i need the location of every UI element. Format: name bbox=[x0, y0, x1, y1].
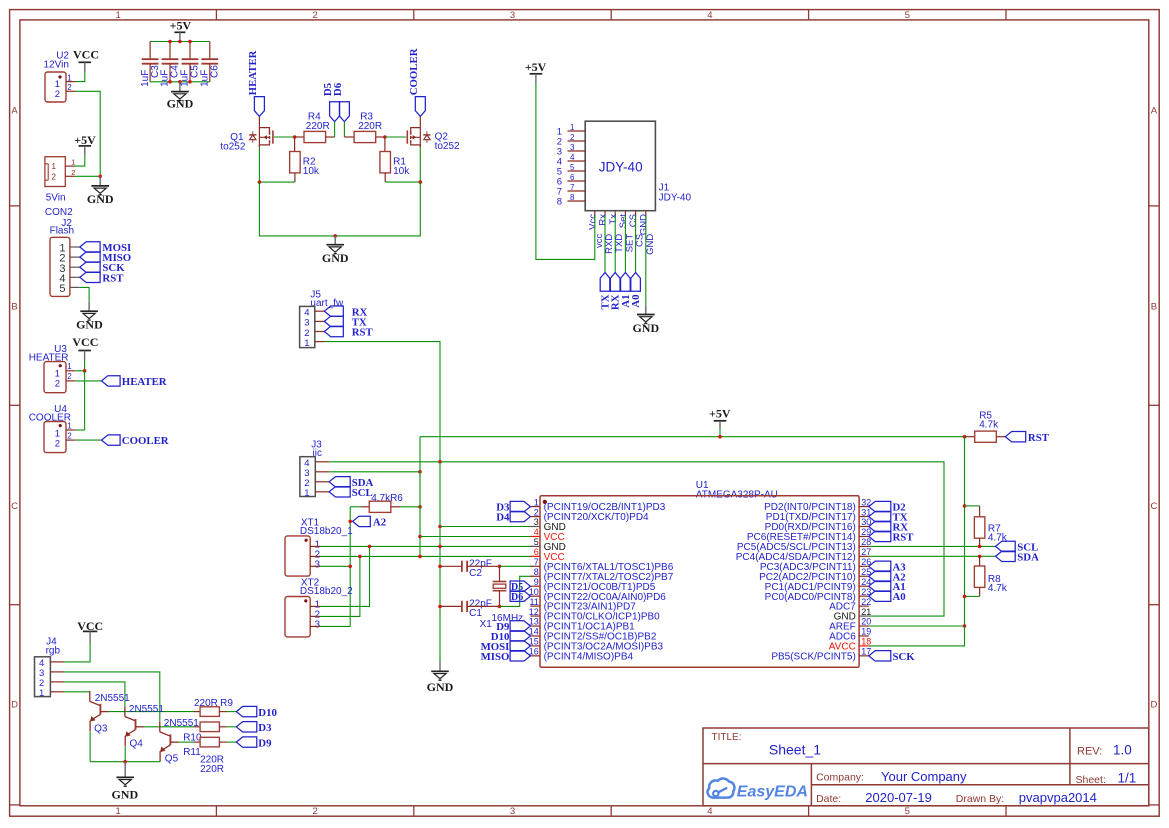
junction Q2 source bbox=[419, 180, 423, 184]
svg-text:D3: D3 bbox=[258, 722, 272, 734]
svg-text:12: 12 bbox=[529, 607, 539, 617]
ground GND below V2 bbox=[427, 662, 454, 694]
svg-text:VCC: VCC bbox=[73, 48, 99, 62]
svg-text:+5V: +5V bbox=[170, 18, 192, 32]
svg-text:18: 18 bbox=[861, 637, 871, 647]
connector 5Vin bbox=[45, 157, 76, 204]
wire GND rail V2 lower bbox=[439, 462, 441, 662]
transistor Q5 bbox=[160, 718, 199, 764]
svg-text:C6: C6 bbox=[210, 65, 221, 78]
svg-text:C: C bbox=[1150, 501, 1157, 512]
net flag D10 at U1.14 bbox=[491, 631, 531, 643]
junction mosfet ground rail bbox=[333, 234, 337, 238]
wire Q3 collector to R9 bbox=[109, 711, 194, 713]
svg-text:D9: D9 bbox=[258, 737, 272, 749]
net flag A3 at U1.26 bbox=[869, 561, 906, 573]
junction R7 top on V3 bbox=[963, 504, 967, 508]
svg-text:4.7k: 4.7k bbox=[988, 533, 1008, 544]
svg-text:VCC: VCC bbox=[72, 335, 98, 349]
wire mosfet ground rail bbox=[259, 182, 420, 236]
wire XT1.3 to A2 net bbox=[320, 565, 350, 567]
svg-text:4: 4 bbox=[534, 527, 539, 537]
svg-text:X1: X1 bbox=[480, 619, 493, 630]
pin J3.4 bbox=[315, 461, 329, 463]
svg-text:D6: D6 bbox=[332, 82, 344, 96]
junction R7 bottom SCL bbox=[978, 545, 982, 549]
svg-text:GND: GND bbox=[427, 680, 454, 694]
svg-text:B: B bbox=[1151, 301, 1157, 312]
svg-text:2: 2 bbox=[312, 10, 317, 21]
pin J2.4 bbox=[70, 276, 80, 278]
ground GND below mosfets bbox=[322, 236, 349, 265]
pin J1.3 (nc) bbox=[557, 143, 585, 158]
resistor R7 bbox=[965, 506, 1008, 547]
junction Q1 gate bbox=[293, 135, 297, 139]
pin U1.25 PC2(ADC2/PCINT10) bbox=[759, 567, 871, 583]
pin U1.24 PC1(ADC1/PCINT9) bbox=[765, 577, 872, 593]
pin U1.3 GND bbox=[530, 517, 565, 533]
svg-text:2N5551: 2N5551 bbox=[164, 718, 199, 729]
svg-text:4: 4 bbox=[707, 806, 712, 817]
pin U1.27 PC4(ADC4/SDA/PCINT12) bbox=[736, 547, 871, 563]
svg-text:RST: RST bbox=[893, 531, 915, 543]
transistor Q2 bbox=[407, 116, 460, 151]
wire Q2 source down bbox=[419, 147, 421, 154]
wire pin4 row branch bbox=[420, 536, 533, 538]
svg-text:Sheet:: Sheet: bbox=[1076, 774, 1106, 786]
connector J5 uart_fw bbox=[300, 290, 344, 349]
pin J3.3 bbox=[315, 471, 329, 473]
wire C2 to U1 pin7 bbox=[500, 565, 533, 567]
svg-text:1: 1 bbox=[67, 422, 72, 431]
wire JDY-40 CS to A0 flag bbox=[635, 216, 637, 273]
svg-text:DS18b20_2: DS18b20_2 bbox=[300, 586, 353, 597]
junction V2 pin3 row bbox=[438, 525, 442, 529]
pin J5.2 bbox=[315, 331, 325, 333]
net flag COOLER at Q2 bbox=[408, 48, 425, 116]
svg-text:rgb: rgb bbox=[46, 646, 61, 657]
wire U2.1 to VCC bbox=[75, 72, 84, 82]
net flag RST at R5 bbox=[1005, 432, 1049, 444]
svg-text:B: B bbox=[11, 301, 17, 312]
pin J1.2 (nc) bbox=[557, 133, 585, 148]
svg-text:220R: 220R bbox=[358, 121, 382, 132]
net flag RST at J5 bbox=[324, 326, 373, 338]
net flag D5 at U1.9 bbox=[510, 581, 530, 593]
svg-text:2: 2 bbox=[534, 507, 539, 517]
junction C1 left bbox=[438, 605, 442, 609]
resistor R4 bbox=[295, 112, 335, 143]
svg-text:2: 2 bbox=[55, 438, 60, 449]
svg-text:RST: RST bbox=[1028, 432, 1050, 444]
svg-text:Flash: Flash bbox=[50, 226, 74, 237]
pin J1 CS (bottom) bbox=[628, 211, 645, 247]
pin XT1.1 bbox=[310, 545, 320, 547]
wire JDY-40 TXD to RX flag bbox=[614, 216, 616, 273]
junction R5 left bbox=[963, 435, 967, 439]
pin J1.7 (nc) bbox=[557, 183, 585, 198]
svg-text:20: 20 bbox=[861, 617, 871, 627]
svg-text:12Vin: 12Vin bbox=[44, 60, 69, 71]
junction R8 top SDA bbox=[978, 555, 982, 559]
pin J1 Rx (bottom) bbox=[598, 211, 615, 254]
svg-text:MISO: MISO bbox=[481, 651, 510, 663]
pin U1.18 AVCC bbox=[829, 637, 871, 653]
crystal X1 16MHz bbox=[480, 566, 524, 630]
svg-text:SCL: SCL bbox=[352, 487, 373, 499]
ground GND below JDY-40 bbox=[632, 306, 659, 335]
svg-text:2: 2 bbox=[55, 379, 60, 390]
resistor R2 bbox=[290, 137, 320, 182]
power flag +5V at 5Vin bbox=[74, 133, 96, 156]
svg-text:COOLER: COOLER bbox=[122, 435, 169, 447]
net flag D4 at U1.2 bbox=[496, 511, 530, 523]
wire JDY-40 GND down bbox=[645, 216, 647, 306]
wire R2 to Q1 source bbox=[259, 181, 295, 183]
net flag D3 at U1.1 bbox=[496, 501, 530, 513]
wire U1 pin20 AREF to V3 bbox=[869, 625, 965, 627]
connector U3 HEATER bbox=[29, 344, 72, 393]
net flag D9 at R11 bbox=[236, 737, 272, 749]
pin J1 Vcc (bottom) bbox=[587, 211, 604, 248]
pin U1.32 PD2(INT0/PCINT18) bbox=[764, 497, 871, 513]
svg-text:1.0: 1.0 bbox=[1113, 743, 1132, 758]
pin J5.1 bbox=[315, 341, 325, 343]
wire R3 to Q2 gate bbox=[385, 136, 406, 138]
pin J5.3 bbox=[315, 320, 325, 322]
svg-text:1: 1 bbox=[39, 688, 44, 699]
power flag +5V at capacitor bank bbox=[170, 18, 192, 41]
svg-text:A: A bbox=[1151, 106, 1158, 117]
svg-text:1: 1 bbox=[304, 338, 309, 349]
svg-text:Sheet_1: Sheet_1 bbox=[769, 741, 821, 757]
resistor R9 bbox=[194, 698, 236, 717]
pin U1.14 (PCINT2/SS#/OC1B)PB2 bbox=[529, 627, 657, 643]
resistor R5 bbox=[965, 410, 1006, 442]
svg-text:7: 7 bbox=[534, 557, 539, 567]
svg-text:4.7k: 4.7k bbox=[979, 420, 999, 431]
svg-text:Q3: Q3 bbox=[94, 723, 108, 734]
svg-text:C1: C1 bbox=[469, 608, 482, 619]
transistor Q1 bbox=[220, 116, 273, 152]
junction at 5Vin GND bbox=[98, 175, 102, 179]
svg-text:19: 19 bbox=[861, 627, 871, 637]
resistor R1 bbox=[380, 137, 410, 182]
svg-text:Date:: Date: bbox=[816, 793, 841, 805]
svg-text:8: 8 bbox=[570, 193, 575, 202]
power flag +5V at JDY-40 bbox=[525, 60, 547, 83]
wire top rail of capacitor bank bbox=[150, 41, 210, 43]
pin J4.1 bbox=[50, 691, 64, 693]
net flag SCL at J3 bbox=[329, 487, 373, 499]
svg-text:C2: C2 bbox=[469, 568, 482, 579]
pin J1 Tx (bottom) bbox=[608, 211, 625, 253]
net flag D2 at U1.32 bbox=[869, 501, 906, 513]
pin U1.30 PD0(RXD/PCINT16) bbox=[765, 517, 872, 533]
wire J4.2 to Q4 base bbox=[64, 682, 125, 706]
junction XT1.3 on A2 net bbox=[348, 565, 352, 569]
resistor R3 bbox=[344, 112, 385, 143]
svg-text:D10: D10 bbox=[258, 707, 277, 719]
pin U1.22 ADC7 bbox=[829, 597, 871, 613]
net flag D10 at R9 bbox=[236, 706, 277, 718]
wire U4.2 to COOLER flag bbox=[75, 439, 101, 441]
wire C1 to U1 pin8 bbox=[500, 576, 533, 606]
pin U1.23 PC0(ADC0/PCINT8) bbox=[765, 587, 872, 603]
net flag SCL at R7 bbox=[996, 541, 1039, 553]
svg-text:2: 2 bbox=[312, 806, 317, 817]
junction C2 right bbox=[498, 565, 502, 569]
svg-text:1: 1 bbox=[116, 806, 121, 817]
title block bbox=[703, 728, 1149, 806]
wire J4.1 to Q3 base bbox=[64, 691, 89, 693]
wire JDY-40 SET to A1 flag bbox=[624, 216, 626, 273]
svg-text:Q4: Q4 bbox=[130, 739, 144, 750]
wire Q1 gate to R4 bbox=[274, 136, 295, 138]
wire +5V row to R5 bbox=[420, 436, 965, 438]
svg-text:2: 2 bbox=[67, 432, 72, 441]
wire J4.3 to Q5 base bbox=[64, 672, 159, 722]
pin U1.19 ADC6 bbox=[829, 627, 871, 643]
pin U1.16 (PCINT4/MISO)PB4 bbox=[529, 647, 634, 663]
svg-text:JDY-40: JDY-40 bbox=[599, 160, 643, 175]
wire XT2.2 to VCC row bbox=[320, 556, 360, 616]
svg-text:3: 3 bbox=[534, 517, 539, 527]
wire J5.1 ground run bbox=[324, 342, 440, 462]
pin XT1.3 bbox=[310, 565, 320, 567]
wire JDY-40 RXD to TX flag bbox=[604, 216, 606, 273]
pin U1.7 (PCINT6/XTAL1/TOSC1)PB6 bbox=[530, 557, 673, 573]
svg-text:A: A bbox=[11, 106, 18, 117]
svg-text:3: 3 bbox=[570, 143, 575, 152]
net flag D3 at R10 bbox=[236, 722, 272, 734]
svg-text:6: 6 bbox=[534, 547, 539, 557]
svg-text:1: 1 bbox=[570, 123, 575, 132]
wire Q3 emitter down bbox=[89, 731, 91, 762]
pin 5Vin.1 bbox=[65, 165, 74, 167]
transistor Q3 bbox=[90, 691, 130, 734]
svg-text:1: 1 bbox=[67, 362, 72, 371]
svg-text:2: 2 bbox=[570, 133, 575, 142]
wire D6 to R3 bbox=[343, 122, 345, 137]
capacitor C6 bbox=[200, 42, 221, 87]
pin U1.20 AREF bbox=[829, 617, 871, 633]
pin U1.29 PC6(RESET#/PCINT14) bbox=[747, 527, 871, 543]
pin U1.13 (PCINT1/OC1A)PB1 bbox=[529, 617, 635, 633]
wire A2 vertical (DQ net) bbox=[349, 507, 351, 627]
svg-text:5Vin: 5Vin bbox=[46, 193, 66, 204]
connector J3 iic bbox=[300, 440, 322, 500]
svg-text:ATMEGA328P-AU: ATMEGA328P-AU bbox=[696, 489, 778, 500]
pin J2.1 bbox=[70, 246, 80, 248]
svg-text:5: 5 bbox=[59, 283, 65, 295]
svg-text:A0: A0 bbox=[630, 295, 642, 308]
pin U2.2 bbox=[66, 90, 75, 92]
pin U1.2 (PCINT20/XCK/T0)PD4 bbox=[530, 507, 649, 523]
pin U4.2 bbox=[66, 439, 75, 441]
svg-text:1: 1 bbox=[71, 158, 75, 167]
wire 5Vin.2 to GND bbox=[75, 175, 101, 177]
svg-text:(PCINT4/MISO)PB4: (PCINT4/MISO)PB4 bbox=[544, 651, 634, 662]
svg-text:Your Company: Your Company bbox=[881, 769, 967, 784]
pin XT2.1 bbox=[310, 605, 320, 607]
pin J1.4 (nc) bbox=[557, 153, 585, 168]
svg-text:PB5(SCK/PCINT5): PB5(SCK/PCINT5) bbox=[771, 651, 855, 662]
svg-text:2: 2 bbox=[71, 168, 75, 177]
pin J1 Set (bottom) bbox=[618, 211, 635, 253]
wire J3.4 ground run to U1 pin21 bbox=[329, 462, 944, 616]
connector J4 rgb bbox=[35, 636, 61, 699]
svg-text:2: 2 bbox=[52, 172, 57, 181]
svg-text:CON2: CON2 bbox=[45, 207, 73, 218]
wire XT2.1 to GND row bbox=[320, 546, 369, 606]
junction V2 pin5 row bbox=[438, 545, 442, 549]
net flag D6 at R3 bbox=[332, 82, 350, 121]
junction emitter rail bbox=[123, 760, 127, 764]
svg-text:10k: 10k bbox=[393, 166, 410, 177]
wire U2.2 down to GND junction bbox=[75, 91, 100, 176]
net flag MOSI at U1.15 bbox=[481, 641, 531, 653]
junction Q1 source bbox=[258, 180, 262, 184]
wire 5Vin.1 to +5V bbox=[75, 156, 85, 166]
net flag SCK at U1.17 bbox=[869, 651, 916, 663]
net flag MISO at U1.16 bbox=[481, 651, 531, 663]
wire +5V rail V3 bbox=[964, 437, 966, 626]
pin J1.8 (nc) bbox=[557, 193, 585, 208]
svg-text:D4: D4 bbox=[496, 512, 510, 524]
pin U1.31 PD1(TXD/PCINT17) bbox=[766, 507, 871, 523]
net flag A0 at U1.23 bbox=[869, 591, 906, 603]
pin J1 GND (bottom) bbox=[638, 211, 655, 255]
capacitor C2 bbox=[440, 558, 500, 579]
svg-text:to252: to252 bbox=[220, 141, 245, 152]
svg-text:5: 5 bbox=[534, 537, 539, 547]
wire Q4 emitter down bbox=[124, 746, 126, 761]
junction XT2.2 branch bbox=[358, 555, 362, 559]
svg-text:GND: GND bbox=[322, 251, 349, 265]
svg-text:2: 2 bbox=[55, 89, 60, 100]
pin J4.2 bbox=[50, 681, 64, 683]
pin J4.3 bbox=[50, 671, 64, 673]
pin U2.1 bbox=[66, 81, 75, 83]
net flag RX at JDY-40 bbox=[610, 273, 622, 311]
svg-text:D: D bbox=[1150, 700, 1157, 711]
pin J1.6 (nc) bbox=[557, 173, 585, 188]
pin U1.28 PC5(ADC5/SCL/PCINT13) bbox=[737, 537, 871, 553]
net flag TX at JDY-40 bbox=[600, 273, 612, 310]
capacitor C1 bbox=[440, 599, 500, 620]
svg-text:+5V: +5V bbox=[709, 406, 731, 420]
svg-text:COOLER: COOLER bbox=[408, 48, 420, 95]
net flag RX at U1.30 bbox=[869, 521, 908, 533]
svg-text:Company:: Company: bbox=[816, 772, 864, 784]
capacitor C5 bbox=[180, 42, 201, 87]
svg-text:+5V: +5V bbox=[74, 133, 96, 147]
net flag TX at U1.31 bbox=[869, 511, 908, 523]
svg-text:220R: 220R bbox=[200, 764, 224, 775]
ground GND below J2 bbox=[76, 302, 103, 332]
connector U4 COOLER bbox=[29, 404, 72, 453]
svg-text:3: 3 bbox=[315, 560, 321, 571]
svg-text:SCK: SCK bbox=[893, 651, 916, 663]
pin J3.1 bbox=[315, 491, 329, 493]
pin U3.1 bbox=[66, 370, 75, 372]
net flag SDA at J3 bbox=[329, 477, 373, 489]
net flag D5 at R4 bbox=[322, 83, 339, 122]
svg-text:Q5: Q5 bbox=[165, 753, 179, 764]
svg-text:2N5551: 2N5551 bbox=[95, 693, 130, 704]
resistor R10 bbox=[183, 722, 236, 744]
pin U3.2 bbox=[66, 380, 75, 382]
pin J3.2 bbox=[315, 481, 329, 483]
wire Q1 source down bbox=[258, 147, 260, 154]
svg-text:HEATER: HEATER bbox=[247, 50, 259, 95]
net flag MOSI bbox=[80, 242, 131, 254]
junction V1 pin6 row bbox=[418, 555, 422, 559]
junction C1 right bbox=[498, 605, 502, 609]
wire U4.1 to VCC net bbox=[75, 429, 84, 431]
svg-text:TITLE:: TITLE: bbox=[712, 732, 742, 743]
svg-text:RST: RST bbox=[352, 327, 374, 339]
svg-text:3: 3 bbox=[510, 806, 515, 817]
svg-text:10k: 10k bbox=[303, 166, 320, 177]
svg-text:2N5551: 2N5551 bbox=[129, 704, 164, 715]
wire XT2.3 to A2 net bbox=[320, 625, 350, 627]
svg-text:GND: GND bbox=[76, 317, 103, 331]
pin U1.5 GND bbox=[530, 537, 565, 553]
svg-text:1: 1 bbox=[52, 162, 57, 171]
junction XT2.1 branch bbox=[368, 545, 372, 549]
svg-text:6: 6 bbox=[570, 173, 575, 182]
svg-text:C: C bbox=[11, 501, 18, 512]
svg-text:4: 4 bbox=[570, 153, 575, 162]
power flag +5V at R5 row bbox=[709, 406, 731, 436]
pin J2.2 bbox=[70, 256, 80, 258]
EasyEDA logo bbox=[708, 778, 808, 800]
svg-text:REV:: REV: bbox=[1077, 745, 1102, 757]
pin XT2.2 bbox=[310, 615, 320, 617]
wire U3.1 down to U4.1 bbox=[84, 371, 86, 430]
svg-text:8: 8 bbox=[534, 567, 539, 577]
connector XT2 DS18b20_2 bbox=[285, 577, 353, 637]
wire emitter ground rail bbox=[90, 761, 160, 763]
wire J4.4 to VCC bbox=[64, 644, 90, 662]
svg-text:pvapvpa2014: pvapvpa2014 bbox=[1019, 790, 1097, 805]
svg-text:7: 7 bbox=[570, 183, 575, 192]
wire bottom rail of capacitor bank bbox=[150, 81, 210, 83]
wire pin3 row branch bbox=[440, 526, 533, 528]
transistor Q4 bbox=[125, 704, 164, 750]
svg-text:4: 4 bbox=[707, 10, 712, 21]
pin J1.1 (nc) bbox=[557, 123, 585, 138]
junction C2 left bbox=[438, 565, 442, 569]
net flag RST at J2 bbox=[80, 272, 124, 284]
pin U1.26 PC3(ADC3/PCINT11) bbox=[760, 557, 871, 573]
pin U1.11 (PCINT23/AIN1)PD7 bbox=[529, 597, 636, 613]
svg-text:SDA: SDA bbox=[1017, 552, 1039, 564]
wire U1 pin18 AVCC to V3 bbox=[869, 626, 965, 646]
ground GND below transistors bbox=[111, 762, 138, 802]
ground GND below 5Vin bbox=[87, 176, 114, 206]
net flag TX at J5 bbox=[324, 316, 367, 328]
net flag A2 at U1.25 bbox=[869, 571, 906, 583]
net flag HEATER at U3 bbox=[102, 376, 167, 388]
wire D5 to R4 bbox=[334, 122, 336, 137]
IC U1 ATMEGA328P-AU body bbox=[540, 480, 859, 667]
svg-text:2020-07-19: 2020-07-19 bbox=[865, 790, 932, 805]
wire R1 to Q2 source bbox=[385, 181, 420, 183]
svg-text:HEATER: HEATER bbox=[122, 376, 167, 388]
